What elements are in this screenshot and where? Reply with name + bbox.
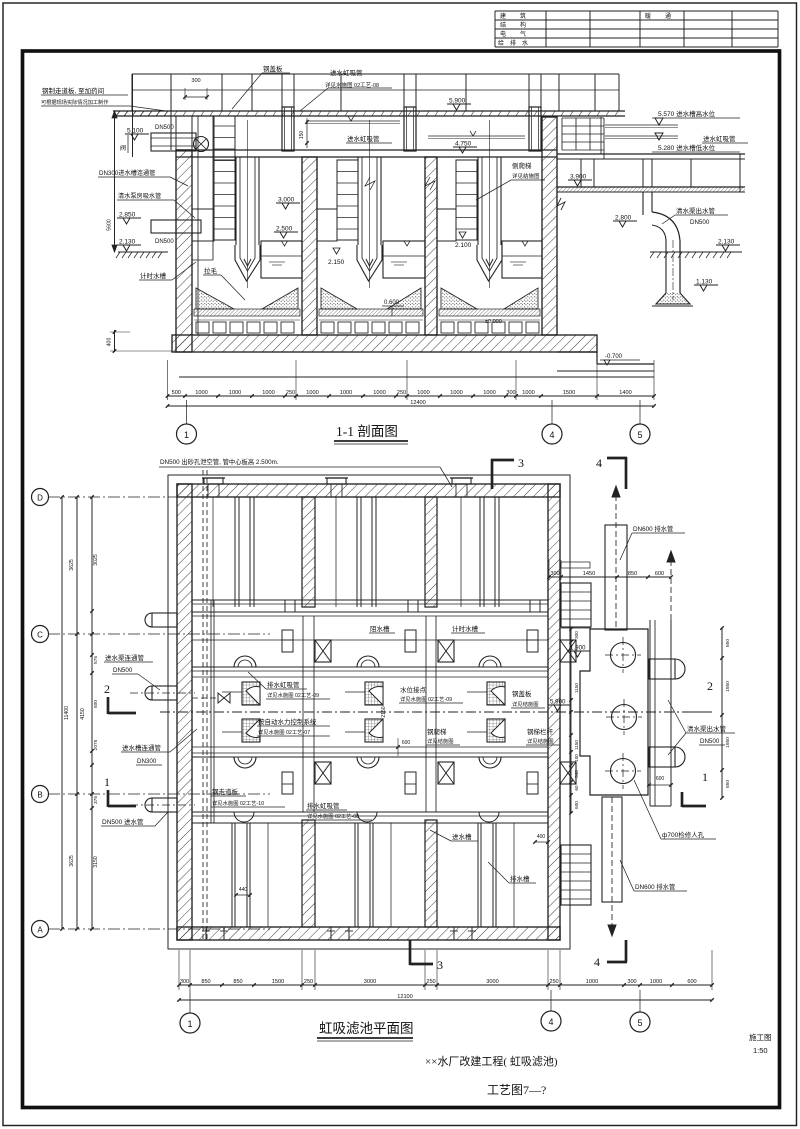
plan: pipe stub at C upper [152, 613, 177, 627]
plan: left dim chain sub [91, 497, 93, 929]
section: bottom slab hatched [172, 335, 597, 352]
svg-text:1400: 1400 [619, 390, 631, 396]
section cell: siphon outlet funnel [235, 245, 260, 281]
plan mid: X box lower [315, 762, 331, 784]
plan mid: post pair lower [527, 772, 538, 794]
section: valve circle [194, 137, 209, 152]
section: railing top rail [132, 73, 619, 75]
svg-text:详见结施图: 详见结施图 [527, 737, 554, 745]
section: right tank wall hatched [542, 117, 557, 335]
plan: grid circle C [32, 626, 49, 643]
svg-text:虹吸滤池平面图: 虹吸滤池平面图 [319, 1021, 414, 1036]
svg-text:DN500: DN500 [700, 738, 720, 745]
plan: grid circle D [32, 489, 49, 506]
svg-text:进水渠连通管: 进水渠连通管 [105, 653, 145, 662]
title table top right [495, 10, 778, 12]
svg-text:清水泵房吸水管: 清水泵房吸水管 [118, 192, 161, 200]
svg-text:1500: 1500 [563, 390, 575, 396]
plan: left dim chain total 11400 [61, 497, 63, 929]
section: mid wall 2 hatched [425, 157, 437, 335]
section: total dim 12400 [168, 405, 655, 407]
svg-text:清水渠出水管: 清水渠出水管 [676, 206, 716, 215]
plan mid: X box lower [560, 762, 576, 784]
svg-text:拉毛: 拉毛 [204, 266, 218, 275]
svg-text:筑: 筑 [520, 12, 526, 20]
svg-text:100: 100 [574, 754, 579, 762]
svg-text:钢走道板: 钢走道板 [212, 787, 239, 796]
section: left boundary lines [132, 74, 134, 157]
svg-text:计时水槽: 计时水槽 [452, 624, 479, 633]
plan: pipe stub DN500 at B [152, 798, 177, 812]
section cell: siphon pipe [357, 157, 359, 245]
svg-text:A: A [37, 926, 43, 935]
plan: section mark 3 top [491, 459, 494, 489]
svg-text:按自动水力控制系统: 按自动水力控制系统 [258, 717, 317, 726]
svg-text:850: 850 [233, 979, 242, 985]
plan: grid circle B [32, 786, 49, 803]
plan: pipe stub DN500 at 2 [152, 686, 177, 700]
svg-text:2.130: 2.130 [718, 239, 735, 246]
svg-text:排水槽: 排水槽 [510, 874, 530, 883]
svg-text:850: 850 [628, 571, 637, 577]
svg-text:3000: 3000 [364, 979, 376, 985]
svg-text:5: 5 [637, 1018, 642, 1028]
svg-text:DN300: DN300 [137, 758, 157, 765]
svg-text:440: 440 [239, 887, 248, 893]
svg-text:给: 给 [498, 39, 504, 47]
section cell: trough half wall left [317, 209, 337, 241]
svg-text:2: 2 [104, 682, 110, 696]
svg-text:水: 水 [522, 39, 528, 47]
svg-text:1:50: 1:50 [753, 1046, 768, 1055]
svg-text:5.900: 5.900 [550, 699, 566, 706]
svg-text:1150: 1150 [574, 740, 579, 750]
section: right channel bottom dark band [557, 188, 745, 193]
svg-text:D: D [37, 494, 43, 503]
svg-text:5.570 进水槽高水位: 5.570 进水槽高水位 [658, 109, 716, 118]
plan mid: lower trough dome [479, 812, 499, 822]
section cell: siphon pipe [235, 157, 237, 245]
section: axis circle 4 [542, 424, 562, 444]
section cell: underdrain blocks [441, 322, 454, 333]
svg-text:5.280 进水槽低水位: 5.280 进水槽低水位 [658, 143, 716, 152]
section: right pit step [557, 351, 597, 353]
section: left dim 400 [114, 330, 116, 352]
svg-text:DN500: DN500 [155, 239, 174, 245]
section cell: ladder [214, 160, 235, 240]
section: outlet elbow pipe DN500 [652, 212, 680, 293]
svg-text:600: 600 [574, 801, 579, 809]
plan mid: small connect lines [467, 691, 487, 693]
svg-text:300: 300 [506, 390, 515, 396]
svg-text:水位接点: 水位接点 [400, 685, 427, 694]
svg-text:2150: 2150 [381, 706, 387, 717]
svg-text:详见水施图 02工艺-07: 详见水施图 02工艺-07 [258, 728, 310, 736]
section: elbow flare foot [656, 293, 690, 304]
plan mid: post pair lower [405, 772, 416, 794]
svg-text:2.850: 2.850 [119, 212, 136, 219]
svg-text:1000: 1000 [306, 390, 318, 396]
plan: trough posts below top cells [284, 600, 286, 612]
svg-text:400: 400 [537, 834, 546, 840]
svg-text:2.800: 2.800 [615, 215, 632, 222]
plan right: clear water channel [649, 620, 651, 806]
svg-text:1000: 1000 [229, 390, 241, 396]
svg-text:暖: 暖 [645, 12, 651, 20]
svg-text:DN500 进水管: DN500 进水管 [102, 817, 144, 826]
svg-text:1: 1 [702, 770, 708, 784]
svg-text:清水渠出水管: 清水渠出水管 [687, 724, 727, 733]
svg-text:结: 结 [500, 21, 506, 29]
svg-text:DN300进水槽连通管: DN300进水槽连通管 [99, 169, 155, 177]
plan mid: X box upper [438, 640, 454, 662]
svg-text:1450: 1450 [583, 571, 595, 577]
svg-text:850: 850 [201, 979, 210, 985]
svg-text:4150: 4150 [80, 708, 86, 720]
svg-text:施工图: 施工图 [749, 1032, 772, 1042]
section: water level 2.150 cell2 [333, 248, 340, 254]
plan: dashed drain pipe vertical left [202, 470, 204, 940]
plan: inner wall 1 bottom [302, 820, 315, 927]
svg-text:建: 建 [500, 12, 506, 20]
section: dim extension lines [167, 360, 169, 400]
section: right inlet channel slab [557, 153, 745, 155]
svg-text:1000: 1000 [373, 390, 385, 396]
plan mid: crosshatch cover upper [487, 682, 505, 705]
svg-text:1000: 1000 [483, 390, 495, 396]
plan mid: crosshatch cover upper [365, 682, 383, 705]
svg-text:±0.000: ±0.000 [485, 319, 502, 325]
svg-text:575: 575 [93, 656, 99, 664]
svg-text:-0.700: -0.700 [605, 354, 623, 360]
plan: dim 440 in cell1 bottom [236, 894, 250, 896]
section: left tank wall hatched [176, 150, 192, 352]
plan: wall stub lines through middle band [302, 616, 304, 812]
svg-text:钢盖板: 钢盖板 [512, 689, 532, 698]
plan right: top dim chain [549, 576, 671, 578]
svg-text:DN500: DN500 [113, 667, 133, 674]
plan right: dim 600 bottom [649, 784, 671, 786]
svg-text:3000: 3000 [486, 979, 498, 985]
svg-text:B: B [37, 791, 42, 800]
plan mid: post pair lower [282, 772, 293, 794]
section: walkway deck plank ticks [174, 111, 177, 116]
plan right: manhole circle 3 [611, 759, 636, 784]
svg-text:1000: 1000 [650, 979, 662, 985]
section: axis circle 1 [177, 424, 197, 444]
plan: bottom footings [200, 939, 230, 941]
plan mid: X box upper [560, 640, 576, 662]
svg-text:排水虹吸管: 排水虹吸管 [307, 801, 340, 810]
plan: center axis line [160, 711, 712, 713]
svg-text:1150: 1150 [574, 683, 579, 693]
plan: section mark 3 bottom [409, 940, 412, 965]
section: tank top slab [176, 149, 557, 151]
plan mid: X box lower [438, 762, 454, 784]
svg-text:阻水槽: 阻水槽 [370, 624, 390, 633]
svg-text:250: 250 [397, 390, 406, 396]
svg-text:4: 4 [549, 430, 554, 440]
section cell: water trough box [502, 241, 542, 278]
svg-text:电: 电 [500, 30, 506, 38]
svg-text:1: 1 [184, 430, 189, 440]
svg-text:详见水施图 02工艺-10: 详见水施图 02工艺-10 [212, 799, 264, 807]
svg-text:3: 3 [518, 456, 524, 470]
svg-text:钢爬梯: 钢爬梯 [427, 727, 447, 736]
svg-text:600: 600 [687, 979, 696, 985]
svg-text:400: 400 [107, 338, 113, 347]
plan: grid circle A [32, 921, 49, 938]
plan: left wall hatched [177, 484, 192, 940]
svg-text:600: 600 [402, 740, 411, 746]
svg-text:1000: 1000 [262, 390, 274, 396]
svg-text:1000: 1000 [340, 390, 352, 396]
svg-text:1000: 1000 [195, 390, 207, 396]
plan: inner wall 2 bottom [425, 820, 437, 927]
plan: outer outline offset [168, 475, 570, 949]
svg-text:进水虹吸管: 进水虹吸管 [330, 68, 363, 77]
plan right: stairs bottom [561, 845, 591, 905]
svg-text:DN500 出砂孔泄空管, 管中心板高 2.500m.: DN500 出砂孔泄空管, 管中心板高 2.500m. [160, 457, 279, 466]
svg-text:4: 4 [548, 1017, 553, 1027]
svg-text:排: 排 [510, 39, 516, 47]
svg-text:2075: 2075 [93, 739, 99, 750]
svg-text:1500: 1500 [272, 979, 284, 985]
section: dim 150 vertical [306, 118, 308, 148]
plan: bottom cells center pipes [267, 823, 269, 927]
svg-text:3625: 3625 [69, 855, 75, 867]
section cell: siphon center line [247, 120, 249, 288]
svg-text:5.100: 5.100 [127, 128, 144, 135]
svg-text:2: 2 [707, 679, 713, 693]
svg-text:3.900: 3.900 [570, 174, 587, 181]
section: railing posts [131, 74, 133, 111]
plan mid: small connect lines [222, 691, 242, 693]
plan mid: post pair upper [527, 630, 538, 652]
plan mid: crosshatch cover upper [242, 682, 260, 705]
svg-text:4: 4 [594, 955, 600, 969]
plan: inner wall 1 top [302, 497, 315, 607]
section: wall break marks [365, 177, 375, 190]
svg-text:1: 1 [187, 1019, 192, 1029]
svg-text:150: 150 [299, 131, 305, 140]
plan: axis circle 4 bottom [541, 1011, 561, 1031]
plan right: outlet stub 1 [649, 659, 675, 679]
plan mid: dome lower [357, 757, 379, 768]
plan right: rotated dims inner [570, 629, 572, 813]
svg-text:500: 500 [172, 390, 181, 396]
plan: lower trough band [192, 811, 548, 813]
svg-text:12400: 12400 [410, 400, 426, 406]
section: water level 2.100 cell3 [459, 232, 466, 238]
svg-text:DN500: DN500 [690, 219, 710, 226]
section: channel water lines [306, 120, 400, 122]
svg-text:3025: 3025 [93, 554, 99, 566]
svg-text:250: 250 [549, 979, 558, 985]
plan mid: lower trough dome [234, 812, 254, 822]
section cell: underdrain blocks [196, 322, 209, 333]
plan: top cells center pipes [212, 497, 214, 607]
plan right: manhole circle 2 [612, 705, 637, 730]
svg-text:250: 250 [304, 979, 313, 985]
svg-text:1: 1 [104, 775, 110, 789]
plan: bottom wall hatched [177, 927, 560, 940]
plan right: outlet stub 2 [649, 747, 675, 767]
section cell: water trough box [261, 241, 302, 278]
plan: trough band top [192, 599, 548, 601]
svg-text:1000: 1000 [450, 390, 462, 396]
plan: dim 600 mid [400, 746, 412, 748]
svg-text:12100: 12100 [397, 994, 413, 1000]
svg-text:0.600: 0.600 [384, 300, 400, 306]
section: break mark [557, 198, 565, 210]
plan mid: dome lower [234, 757, 256, 768]
svg-text:1550: 1550 [725, 681, 731, 692]
section cell: siphon outlet funnel [357, 245, 382, 281]
section cell: trough half wall left [437, 209, 456, 241]
plan: dim 400 right [535, 841, 548, 843]
section: suction pipe DN500 [151, 220, 201, 233]
svg-text:ф700检修人孔: ф700检修人孔 [662, 830, 705, 839]
svg-text:通: 通 [665, 12, 671, 20]
plan mid: crosshatch cover lower [365, 719, 383, 742]
section: cell1 ladder upper extension [214, 116, 235, 160]
section: axis circle 5 [630, 424, 650, 444]
svg-text:1.900: 1.900 [570, 645, 586, 652]
plan: top wall chimneys [204, 478, 223, 484]
svg-text:××水厂改建工程( 虹吸滤池): ××水厂改建工程( 虹吸滤池) [425, 1054, 558, 1068]
plan mid: post pair upper [282, 630, 293, 652]
svg-text:进水槽: 进水槽 [452, 832, 472, 841]
svg-text:500: 500 [93, 700, 99, 708]
plan right: manhole circle 1 [611, 643, 636, 668]
svg-text:4.750: 4.750 [455, 141, 472, 148]
svg-text:300: 300 [191, 78, 200, 84]
section cell: filter plate strip [439, 309, 540, 316]
svg-text:1000: 1000 [522, 390, 534, 396]
svg-text:60: 60 [574, 785, 579, 791]
section cell: siphon center line [489, 120, 491, 288]
plan: left dim chain grid spans [76, 497, 78, 929]
section cell: ladder [337, 160, 358, 240]
section cell: siphon pipe [477, 157, 479, 245]
section cell: siphon center line [369, 120, 371, 288]
plan: total dim 12100 [179, 999, 712, 1001]
svg-text:1-1 剖面图: 1-1 剖面图 [336, 424, 398, 439]
section: mid wall 1 hatched [302, 157, 317, 335]
plan right: outlet box [580, 629, 648, 795]
plan: bottom dim chain [179, 984, 712, 986]
svg-text:375: 375 [93, 796, 99, 804]
section cell: water trough box [383, 241, 425, 278]
svg-text:600: 600 [655, 571, 664, 577]
plan: inner wall 2 top [425, 497, 437, 607]
plan: axis circle 1 bottom [180, 1013, 200, 1033]
svg-text:DN500: DN500 [155, 125, 174, 131]
plan: butterfly valve on DN500 pipe [218, 693, 230, 703]
svg-text:3: 3 [437, 958, 443, 972]
section: bottom dim chain [168, 395, 655, 397]
section: inlet siphon pipes above tank [282, 107, 294, 151]
svg-text:详见结施图: 详见结施图 [427, 737, 454, 745]
section cell: ladder [456, 160, 477, 240]
svg-text:1.130: 1.130 [696, 279, 713, 286]
svg-text:250: 250 [286, 390, 295, 396]
plan: bottom cells interior verticals [231, 823, 233, 927]
plan mid: lower trough dome [357, 812, 377, 822]
svg-text:3.000: 3.000 [278, 197, 295, 204]
svg-text:300: 300 [180, 979, 189, 985]
svg-text:排水虹吸管: 排水虹吸管 [267, 680, 300, 689]
section: level 5.280 low water [655, 133, 663, 140]
svg-text:钢制走道板, 至加药间: 钢制走道板, 至加药间 [42, 86, 104, 95]
svg-text:详见水施图 02工艺-08: 详见水施图 02工艺-08 [307, 812, 359, 820]
svg-text:钢盖板: 钢盖板 [263, 64, 283, 73]
section cell: trough half wall left [192, 209, 214, 241]
svg-text:1550: 1550 [725, 737, 731, 748]
svg-text:3150: 3150 [93, 856, 99, 868]
section: left dim 5600 [114, 111, 116, 252]
svg-text:可根据现场实际情况加工制作: 可根据现场实际情况加工制作 [41, 98, 108, 106]
plan: top cells interior verticals [234, 497, 236, 607]
section cell: siphon outlet funnel [477, 245, 502, 281]
section: railing mid rail [132, 89, 619, 91]
svg-text:4: 4 [596, 456, 602, 470]
svg-text:2.500: 2.500 [276, 226, 293, 233]
svg-text:250: 250 [426, 979, 435, 985]
plan: right wall hatched [548, 484, 560, 940]
plan right: stairs top [561, 583, 591, 627]
svg-text:气: 气 [520, 30, 526, 38]
svg-text:工艺图7—?: 工艺图7—? [487, 1083, 546, 1097]
section: right wall upper ladder grid [561, 118, 563, 150]
section: walkway deck [113, 110, 625, 112]
section: sand mounds flanking walls [196, 288, 234, 309]
plan right: right dim chain [721, 628, 723, 798]
plan right: second pipe arrow [670, 551, 672, 620]
svg-text:钢梯栏杆: 钢梯栏杆 [527, 727, 554, 736]
svg-text:详见水施图 02工艺-09: 详见水施图 02工艺-09 [267, 691, 319, 699]
svg-text:2.130: 2.130 [119, 239, 136, 246]
svg-text:650: 650 [725, 639, 731, 647]
section cell: filter plate strip [319, 309, 423, 316]
svg-text:构: 构 [520, 21, 526, 29]
plan mid: crosshatch cover lower [242, 719, 260, 742]
svg-text:300: 300 [627, 979, 636, 985]
svg-text:2.100: 2.100 [455, 242, 472, 249]
plan mid: post pair upper [405, 630, 416, 652]
section: left channel inner walls [191, 116, 193, 335]
svg-text:阀: 阀 [120, 144, 126, 152]
plan mid: drain siphon dome upper [357, 656, 379, 667]
svg-text:2.150: 2.150 [328, 259, 345, 266]
plan mid: X box upper [315, 640, 331, 662]
svg-text:DN600 排水管: DN600 排水管 [635, 882, 675, 891]
section: walkway hatch left segment [116, 111, 120, 116]
section: ground hatch left [118, 251, 168, 253]
svg-text:C: C [37, 631, 43, 640]
svg-text:详见水施图 02工艺-09: 详见水施图 02工艺-09 [400, 695, 452, 703]
svg-text:3625: 3625 [69, 559, 75, 571]
svg-text:300: 300 [574, 631, 579, 639]
section: ground line right [650, 251, 742, 253]
svg-text:540: 540 [574, 770, 579, 778]
svg-text:11400: 11400 [64, 706, 70, 720]
svg-text:详见结施图: 详见结施图 [512, 700, 539, 708]
plan mid: crosshatch cover lower [487, 719, 505, 742]
plan mid: drain siphon dome upper [479, 656, 501, 667]
plan: top wall hatched [177, 484, 560, 497]
